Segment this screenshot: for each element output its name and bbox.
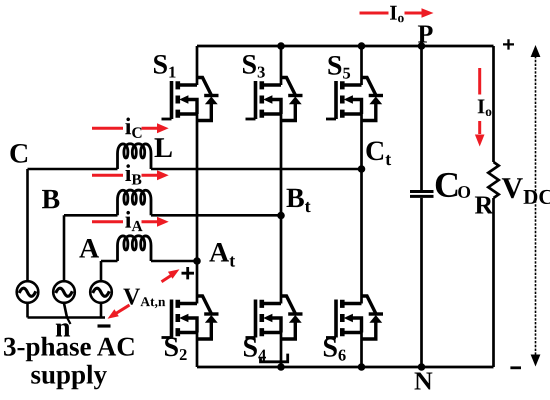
label supply [31,365,107,390]
label phase C [10,144,27,163]
wire: source C to neutral [26,303,29,317]
label iC [125,118,141,138]
wire: capacitor branch upper [420,46,423,190]
transistor S4 [246,296,303,339]
minus sign at n [98,324,111,327]
wire: phase A vertical from source [100,261,103,281]
node Ct dot [358,165,366,173]
current arrow Io right [475,68,485,147]
current arrow iB [92,170,169,180]
wire: top DC bus P rail [197,45,494,48]
label Io right [478,100,492,117]
wire: leg2 S3 source to node Bt to S4 drain [280,114,283,304]
current arrow iC [92,123,169,133]
inductor L phase C [118,144,152,169]
label CO [436,173,458,197]
AC source phase C [17,281,39,303]
label L [155,138,172,157]
wire: right branch lower (resistor R bottom to N rail) [492,198,495,367]
wire: bottom DC bus N rail [197,366,494,369]
minus sign bottom right [510,366,521,369]
label At [209,243,235,267]
label R [475,197,494,214]
wire: leg2 S4 source to N rail [280,333,283,368]
wire: leg3 S5 source to node Ct to S6 drain [360,114,363,304]
node At dot [193,257,201,265]
wire: phase A horizontal to inductor [101,260,118,263]
inductor phase B [118,190,152,215]
label S6 [324,338,346,361]
wire: leg3 drain of S5 from P rail [360,46,363,85]
current arrow Io top [360,8,434,18]
label S1 [154,55,176,78]
wire: leg1 drain of S1 from P rail [196,46,199,85]
label Bt [287,189,311,213]
label 3-phase AC [4,337,134,361]
node P dot [418,42,426,50]
wire: phase C horizontal to inductor [28,168,118,171]
transistor S3 [246,78,303,121]
label VAt,n [123,289,165,309]
label iA [125,211,142,231]
AC source phase B [53,281,75,303]
label S5 [328,56,350,79]
wire: source B to neutral [64,303,67,317]
wire: leg1 S2 source to N rail [196,333,199,368]
label VDC [502,178,550,204]
transistor S1 [162,78,219,121]
wire: phase C vertical from source [26,169,29,281]
transistor S6 [326,296,383,339]
node dot S5 drain on P rail [358,42,366,50]
capacitor C_O plates [410,192,434,197]
wire: capacitor branch lower [420,198,423,367]
VAt,n arrow to minus [108,305,130,319]
node dot S3 drain on P rail [277,42,285,50]
wire: phase C inductor to node Ct [151,168,362,171]
transistor S2 [162,296,219,339]
wire: phase B inductor to node Bt [151,214,281,217]
label N [415,373,433,390]
VAt,n arrow to plus [162,269,180,282]
wire: phase B vertical from source [63,215,66,280]
wire: phase A inductor to node At [151,260,197,263]
wire: neutral bus n [28,316,106,319]
S4 gate hook artifact [261,354,288,362]
dashed Vdc span arrow [535,56,537,356]
label S4 [244,338,266,361]
transistor S5 [326,78,383,121]
plus sign at At [182,267,195,279]
label phase A [79,239,99,258]
AC source phase A [90,281,112,303]
label phase B [42,190,59,208]
wire: phase B horizontal to inductor [64,214,118,217]
resistor R zigzag [488,162,498,198]
label P [418,26,433,43]
wire: leg3 S6 source to N rail [360,333,363,368]
label n [56,323,70,336]
wire: leg1 S1 source to node At to S2 drain [196,114,199,304]
node dot S6 source on N rail [358,363,366,371]
node N dot [418,363,426,371]
label Io top [390,6,404,23]
label Ct [366,142,391,166]
plus sign top right [503,39,514,49]
node dot S4 source on N rail [277,363,285,371]
wire: leg2 drain of S3 from P rail [280,46,283,85]
label iB [125,164,141,184]
current arrow iA [92,217,169,227]
n tick [67,318,71,325]
label S3 [243,55,265,78]
node Bt dot [277,212,285,220]
wire: right branch upper (to resistor R top) [492,46,495,162]
wire: source A to neutral [100,303,103,317]
inductor phase A [118,236,152,261]
label S2 [165,338,187,361]
